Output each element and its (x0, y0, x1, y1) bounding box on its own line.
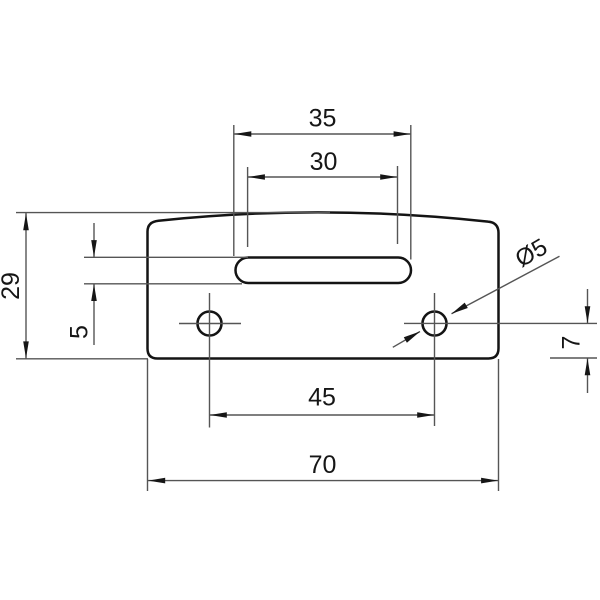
arrow 45 left (210, 412, 227, 418)
centerline hole left horizontal (179, 323, 241, 325)
dimension line 7 upper tail (587, 289, 589, 323)
leader line diameter upper segment (452, 256, 560, 314)
arrow 45 right (417, 412, 434, 418)
extension line 5 top (84, 256, 248, 258)
svg-text:7: 7 (558, 336, 586, 350)
arrow 35 left (234, 131, 251, 137)
svg-text:Ø5: Ø5 (511, 233, 552, 272)
svg-text:29: 29 (0, 272, 25, 300)
extension line 7 bottom (550, 357, 597, 359)
dimension line 7 lower tail (587, 358, 589, 393)
hole right (423, 312, 447, 336)
slot (236, 258, 412, 284)
arrow 30 left (248, 174, 265, 180)
dimension line 29 (25, 213, 27, 359)
arrow 35 right (394, 131, 411, 137)
plate outline (148, 212, 499, 358)
centerline hole right vertical (434, 293, 436, 426)
svg-text:35: 35 (309, 105, 337, 133)
svg-text:30: 30 (310, 148, 338, 176)
leader line diameter lower segment (393, 332, 420, 348)
arrow 30 right (380, 174, 397, 180)
extension line 70 left (147, 359, 149, 491)
arrow 29 top (23, 213, 29, 230)
extension line 30 left (247, 167, 249, 247)
dimension line 5 lower tail (93, 284, 95, 345)
arrow diameter upper pointing at hole (452, 303, 468, 314)
arrow 70 right (481, 478, 498, 484)
arrow 29 bottom (23, 341, 29, 358)
centerline hole right horizontal plus 7 extension top (404, 322, 597, 324)
extension line 30 right (397, 166, 399, 244)
arrow 5 up (91, 284, 97, 301)
dimension line 5 upper tail (93, 223, 95, 257)
dimension line 30 (248, 176, 398, 178)
svg-text:5: 5 (66, 325, 94, 339)
extension line 29 bottom (16, 358, 148, 360)
extension line 29 top (16, 212, 330, 214)
arrow 70 left (148, 478, 165, 484)
centerline hole left vertical (209, 293, 211, 428)
svg-text:70: 70 (309, 451, 337, 479)
extension line 35 left (233, 125, 235, 256)
svg-text:45: 45 (308, 384, 336, 412)
dimension line 45 (210, 414, 435, 416)
arrow 5 down (91, 240, 97, 257)
hole left (198, 312, 222, 336)
dimension line 35 (234, 133, 411, 135)
dimension line 70 (148, 480, 498, 482)
arrow diameter lower pointing at hole (404, 332, 420, 343)
arrow 7 down (585, 306, 591, 323)
extension line 35 right (410, 125, 412, 260)
extension line 70 right (498, 359, 500, 491)
extension line 5 bottom (84, 283, 242, 285)
arrow 7 up (585, 358, 591, 375)
